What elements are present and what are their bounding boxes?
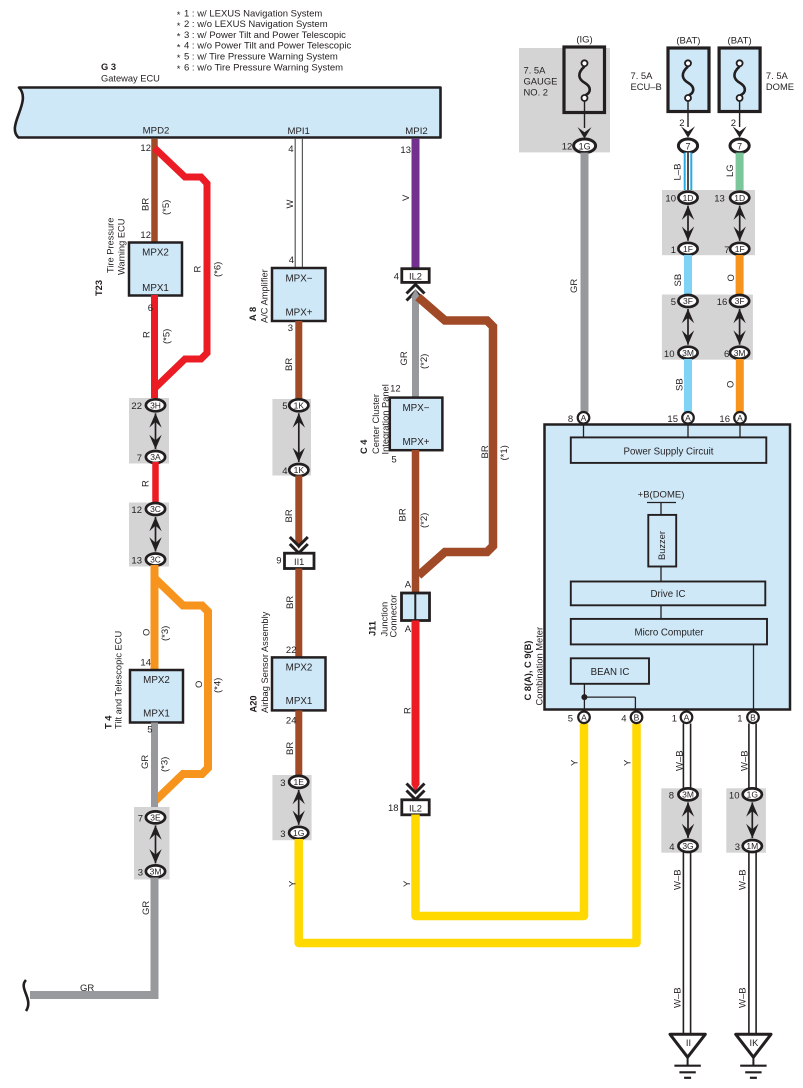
svg-text:4: 4 <box>288 144 293 155</box>
svg-text:(BAT): (BAT) <box>728 36 752 47</box>
svg-text:3M: 3M <box>734 348 746 358</box>
svg-text:7. 5A: 7. 5A <box>524 65 547 76</box>
svg-text:1: 1 <box>671 245 676 256</box>
svg-text:LG: LG <box>725 164 736 177</box>
svg-text:(*5): (*5) <box>162 329 173 344</box>
svg-text:GR: GR <box>399 351 410 365</box>
wire GR from connector 3M to harness break at left <box>24 878 155 1012</box>
connector 1G (12) under IG fuse <box>562 139 596 153</box>
svg-text:O: O <box>194 681 205 688</box>
svg-text:5: 5 <box>568 713 573 724</box>
svg-text:9: 9 <box>276 556 281 567</box>
svg-text:BR: BR <box>398 508 409 521</box>
Micro Computer block <box>571 619 767 711</box>
svg-text:1K: 1K <box>294 401 305 411</box>
svg-text:IL2: IL2 <box>409 272 422 282</box>
svg-text:3: 3 <box>288 323 293 334</box>
connector pair 3C/3C <box>129 503 169 567</box>
ECU A20 Airbag Sensor Assembly <box>249 611 326 713</box>
svg-text:BR: BR <box>480 445 491 458</box>
svg-text:1K: 1K <box>294 465 305 475</box>
svg-text:(*3): (*3) <box>160 626 171 641</box>
connector pair 1G/1M <box>726 788 766 853</box>
svg-text:5 : w/ Tire Pressure Warning S: 5 : w/ Tire Pressure Warning System <box>184 51 338 62</box>
svg-text:GR: GR <box>80 983 94 994</box>
BEAN IC block <box>571 658 649 711</box>
wire BR from II1 to A20 MPX2 pin 22 <box>285 569 299 659</box>
svg-text:O: O <box>142 629 153 636</box>
svg-text:(*4): (*4) <box>213 678 224 693</box>
+B(DOME) node and Buzzer block <box>638 490 685 582</box>
svg-text:L–B: L–B <box>673 164 684 181</box>
svg-text:1 : w/ LEXUS Navigation System: 1 : w/ LEXUS Navigation System <box>184 8 322 19</box>
svg-text:BEAN IC: BEAN IC <box>591 667 630 678</box>
svg-text:*: * <box>177 32 181 43</box>
svg-text:Y: Y <box>402 880 413 887</box>
svg-text:7: 7 <box>737 141 742 151</box>
junction connector J11 <box>368 593 430 638</box>
svg-text:1G: 1G <box>579 141 591 151</box>
svg-text:IK: IK <box>750 1038 760 1048</box>
wire O from connector 1F to connector 3F <box>726 255 740 296</box>
wire O from connector 3M to meter pin 16(A) <box>726 359 740 412</box>
svg-text:*: * <box>177 21 181 32</box>
wire LG from DOME fuse to connector 1D <box>725 153 740 192</box>
svg-text:1D: 1D <box>734 193 745 203</box>
svg-text:BR: BR <box>284 358 295 371</box>
svg-text:MPX2: MPX2 <box>286 663 313 674</box>
wire O from connector 3C to T4 MPX2 <box>140 565 171 671</box>
svg-text:MPX2: MPX2 <box>143 675 170 686</box>
svg-text:+B(DOME): +B(DOME) <box>638 490 685 501</box>
svg-text:Gateway ECU: Gateway ECU <box>101 74 160 84</box>
wire R (*6) bypass around T23 <box>155 148 224 388</box>
svg-text:7: 7 <box>724 245 729 256</box>
legend notes <box>177 8 352 74</box>
svg-text:A: A <box>685 413 691 423</box>
svg-text:7. 5A: 7. 5A <box>631 70 654 81</box>
svg-text:A20: A20 <box>249 695 259 712</box>
svg-text:1D: 1D <box>683 193 694 203</box>
wire W-B from connector 1M to ground IK <box>738 853 757 1035</box>
svg-text:W–B: W–B <box>738 987 749 1008</box>
svg-text:(*6): (*6) <box>213 262 224 277</box>
svg-text:15: 15 <box>667 414 678 425</box>
svg-text:NO. 2: NO. 2 <box>524 87 549 98</box>
svg-text:T 4: T 4 <box>104 715 114 729</box>
svg-text:24: 24 <box>286 716 297 727</box>
svg-text:A: A <box>405 580 412 591</box>
ECU G3 Gateway ECU <box>15 62 441 138</box>
svg-text:*: * <box>177 42 181 53</box>
svg-text:(*5): (*5) <box>161 200 172 215</box>
svg-text:A: A <box>684 713 690 723</box>
svg-text:7: 7 <box>138 814 143 825</box>
svg-text:*: * <box>177 10 181 21</box>
svg-text:Connector: Connector <box>389 595 399 638</box>
svg-text:BR: BR <box>141 198 152 211</box>
ECU C8(A) C9(B) Combination Meter <box>523 425 790 710</box>
ECU T4 Tilt and Telescopic ECU <box>104 631 184 729</box>
connector pair 3H/3A <box>129 398 169 464</box>
svg-text:10: 10 <box>665 194 676 205</box>
svg-text:7. 5A: 7. 5A <box>766 70 789 81</box>
junction connector II1 <box>276 537 314 569</box>
ground point II <box>670 1034 705 1078</box>
ECU T23 Tire Pressure Warning ECU <box>94 218 182 296</box>
svg-text:R: R <box>141 480 152 487</box>
connector pair 3E/3M <box>134 807 170 880</box>
svg-text:Airbag Sensor Assembly: Airbag Sensor Assembly <box>260 611 270 713</box>
svg-text:3M: 3M <box>682 790 694 800</box>
svg-text:IL2: IL2 <box>409 804 422 814</box>
svg-text:W–B: W–B <box>675 750 686 771</box>
svg-text:R: R <box>193 266 204 273</box>
svg-text:5: 5 <box>282 401 287 412</box>
svg-text:C 4: C 4 <box>359 439 369 454</box>
svg-text:MPI2: MPI2 <box>405 126 427 137</box>
svg-text:MPX+: MPX+ <box>286 308 313 319</box>
svg-text:3C: 3C <box>150 504 161 514</box>
svg-text:W–B: W–B <box>673 869 684 890</box>
svg-text:BR: BR <box>285 742 296 755</box>
svg-text:10: 10 <box>729 790 740 801</box>
svg-text:5: 5 <box>391 454 396 465</box>
svg-text:A 8: A 8 <box>248 307 258 321</box>
svg-text:13: 13 <box>131 556 142 567</box>
svg-text:(IG): (IG) <box>576 35 592 46</box>
svg-text:*: * <box>177 64 181 75</box>
svg-text:1F: 1F <box>683 244 693 254</box>
wire GR from connector 1G to combination meter pin 8(A) <box>569 153 585 412</box>
svg-text:MPI1: MPI1 <box>287 126 309 137</box>
svg-text:Warning ECU: Warning ECU <box>117 219 127 276</box>
svg-text:B: B <box>750 713 756 723</box>
svg-text:16: 16 <box>717 297 728 308</box>
svg-text:Micro Computer: Micro Computer <box>635 628 705 639</box>
connector pairs 1D/1F <box>662 190 755 256</box>
svg-text:MPX1: MPX1 <box>142 283 169 294</box>
svg-text:*: * <box>177 53 181 64</box>
svg-text:MPD2: MPD2 <box>143 126 170 137</box>
svg-text:T23: T23 <box>94 280 104 296</box>
svg-text:A: A <box>405 624 412 635</box>
svg-text:12: 12 <box>562 142 573 153</box>
svg-text:Drive IC: Drive IC <box>651 589 686 600</box>
wire W-B from connector 3G to ground II <box>673 853 691 1035</box>
wire BR from gateway MPD2 pin 12 to T23 MPX2 <box>140 139 172 243</box>
svg-text:1G: 1G <box>293 828 304 838</box>
svg-text:MPX−: MPX− <box>403 403 430 414</box>
svg-text:DOME: DOME <box>766 81 794 92</box>
wire R from connector 3A to connector 3C <box>141 462 156 504</box>
svg-text:16: 16 <box>719 414 730 425</box>
svg-text:14: 14 <box>140 658 151 669</box>
junction connector IL2 (pin 4) <box>394 269 429 301</box>
svg-text:C 8(A), C 9(B): C 8(A), C 9(B) <box>523 641 533 701</box>
wire BR from connector 1K to junction II1 <box>284 476 303 550</box>
svg-text:3E: 3E <box>150 813 161 823</box>
svg-text:4: 4 <box>282 466 287 477</box>
wire BR (*1) bypass from IL2 to junction connector J11 <box>418 297 510 576</box>
svg-text:3F: 3F <box>735 296 745 306</box>
svg-text:MPX1: MPX1 <box>286 696 313 707</box>
svg-text:SB: SB <box>673 274 684 287</box>
wire SB from connector 1F to connector 3F <box>673 255 688 296</box>
svg-text:4: 4 <box>394 271 399 282</box>
svg-text:(BAT): (BAT) <box>676 36 700 47</box>
svg-text:(*2): (*2) <box>419 354 430 369</box>
svg-text:4: 4 <box>669 842 674 853</box>
svg-text:2 : w/o LEXUS Navigation Syste: 2 : w/o LEXUS Navigation System <box>184 19 328 30</box>
wire V from gateway MPI2 pin 13 to junction IL2 <box>400 139 415 269</box>
svg-text:13: 13 <box>714 194 725 205</box>
fuse 7.5A GAUGE NO.2 (IG) <box>519 35 610 153</box>
svg-text:4: 4 <box>289 255 294 266</box>
svg-text:1G: 1G <box>747 790 758 800</box>
svg-text:W: W <box>285 200 296 209</box>
svg-text:(*2): (*2) <box>419 513 430 528</box>
svg-text:4 : w/o Power Tilt and Power T: 4 : w/o Power Tilt and Power Telescopic <box>184 41 351 52</box>
ECU A8 A/C Amplifier <box>248 268 326 323</box>
svg-text:22: 22 <box>286 645 297 656</box>
svg-text:6: 6 <box>148 303 153 314</box>
svg-text:3A: 3A <box>150 452 161 462</box>
svg-text:(*3): (*3) <box>160 757 171 772</box>
svg-text:G 3: G 3 <box>101 62 116 72</box>
svg-text:3F: 3F <box>683 296 693 306</box>
svg-text:Integration Panel: Integration Panel <box>380 384 390 454</box>
svg-text:A: A <box>581 413 587 423</box>
svg-text:3: 3 <box>735 842 740 853</box>
svg-text:1M: 1M <box>746 841 758 851</box>
svg-text:O: O <box>726 274 737 281</box>
svg-text:7: 7 <box>137 453 142 464</box>
svg-text:II: II <box>686 1038 691 1048</box>
svg-text:Y: Y <box>570 759 581 766</box>
svg-text:3: 3 <box>280 829 285 840</box>
svg-text:MPX2: MPX2 <box>142 248 169 259</box>
connector pair 1E/1G <box>272 775 311 840</box>
ground point IK <box>736 1034 771 1078</box>
svg-text:3C: 3C <box>150 555 161 565</box>
svg-text:R: R <box>403 707 414 714</box>
svg-text:6: 6 <box>724 349 729 360</box>
svg-text:II1: II1 <box>294 557 304 567</box>
wire GR from IL2 to C4 MPX- pin 12 <box>390 290 430 399</box>
svg-text:3M: 3M <box>682 348 694 358</box>
svg-text:1F: 1F <box>735 244 745 254</box>
svg-text:3 : w/ Power Tilt and Power Te: 3 : w/ Power Tilt and Power Telescopic <box>184 30 346 41</box>
svg-text:Y: Y <box>288 880 299 887</box>
svg-text:4: 4 <box>621 713 626 724</box>
wire R from T23 MPX1 pin 6 to connector 3H <box>142 295 173 400</box>
svg-text:5: 5 <box>671 297 676 308</box>
svg-text:12: 12 <box>140 230 151 241</box>
connector pair 1K/1K <box>272 399 311 477</box>
svg-text:Y: Y <box>623 759 634 766</box>
svg-text:Tilt and Telescopic ECU: Tilt and Telescopic ECU <box>114 631 124 729</box>
Drive IC block <box>571 582 766 619</box>
svg-text:3: 3 <box>280 778 285 789</box>
svg-text:8: 8 <box>669 790 674 801</box>
svg-text:1: 1 <box>672 713 677 724</box>
wire BR from C4 MPX+ pin 5 to junction connector J11 pin A <box>391 450 430 594</box>
svg-text:A/C Amplifier: A/C Amplifier <box>260 269 270 323</box>
wire W-B from meter pin 1(B) to connector 1G <box>740 724 757 789</box>
wire GR from T4 MPX1 pin 5 to connector 3E <box>140 723 171 813</box>
svg-text:12: 12 <box>131 505 142 516</box>
wire L-B from ECU-B fuse to connector 1D <box>673 153 689 192</box>
svg-text:Power Supply Circuit: Power Supply Circuit <box>624 446 714 457</box>
svg-text:(*1): (*1) <box>499 445 510 460</box>
svg-text:W–B: W–B <box>740 750 751 771</box>
svg-text:GR: GR <box>140 755 151 769</box>
svg-text:A: A <box>581 713 587 723</box>
wire Y from IL2 to combination meter pin 5(A) <box>402 724 584 917</box>
svg-text:1: 1 <box>737 713 742 724</box>
svg-text:Buzzer: Buzzer <box>657 531 667 560</box>
svg-text:13: 13 <box>400 145 411 156</box>
svg-text:W–B: W–B <box>738 869 749 890</box>
svg-text:ECU–B: ECU–B <box>631 81 662 92</box>
svg-text:GR: GR <box>141 901 152 915</box>
fuse 7.5A DOME (BAT) <box>719 36 794 153</box>
svg-text:O: O <box>726 381 737 388</box>
svg-text:3: 3 <box>138 868 143 879</box>
wire BR from A8 MPX+ pin 3 to connector 1K <box>284 321 299 400</box>
svg-text:3H: 3H <box>150 401 161 411</box>
svg-text:BR: BR <box>284 509 295 522</box>
svg-text:5: 5 <box>147 725 152 736</box>
wire O (*4) bypass around T4 <box>155 578 224 801</box>
svg-text:R: R <box>142 331 153 338</box>
svg-text:W–B: W–B <box>673 987 684 1008</box>
svg-text:3G: 3G <box>682 841 693 851</box>
svg-text:12: 12 <box>140 143 151 154</box>
meter pins 5(A) 4(B) 1(A) 1(B) <box>568 712 759 725</box>
junction connector IL2 (pin 18) <box>388 784 429 815</box>
svg-text:22: 22 <box>131 401 142 412</box>
svg-text:J11: J11 <box>368 621 378 636</box>
svg-text:6 : w/o Tire Pressure Warning: 6 : w/o Tire Pressure Warning System <box>184 62 343 73</box>
wire R from J11 pin A to junction IL2 (pin 18) <box>403 621 420 792</box>
svg-text:12: 12 <box>390 384 401 395</box>
svg-text:8: 8 <box>568 414 573 425</box>
svg-text:7: 7 <box>685 141 690 151</box>
Power Supply Circuit block <box>571 437 767 463</box>
wire Y from connector 1G to combination meter pin 4(B) <box>288 724 637 944</box>
svg-text:10: 10 <box>664 349 675 360</box>
ECU C4 Center Cluster Integration Panel <box>359 384 442 454</box>
svg-text:MPX+: MPX+ <box>403 437 430 448</box>
svg-text:B: B <box>634 713 640 723</box>
svg-text:BR: BR <box>285 596 296 609</box>
svg-text:SB: SB <box>675 378 686 391</box>
connector pair 3M/3G <box>661 788 702 853</box>
svg-text:V: V <box>401 194 412 201</box>
svg-text:Combination Meter: Combination Meter <box>535 627 545 706</box>
svg-text:GR: GR <box>569 279 580 293</box>
svg-text:MPX−: MPX− <box>286 274 313 285</box>
svg-text:1E: 1E <box>293 777 304 787</box>
svg-text:3M: 3M <box>150 867 162 877</box>
svg-text:18: 18 <box>388 803 399 814</box>
svg-text:A: A <box>737 413 743 423</box>
wire SB from connector 3M to meter pin 15(A) <box>675 359 689 412</box>
meter pins 8(A) 15(A) 16(A) <box>568 412 746 438</box>
connector pairs 3F/3M <box>662 295 753 361</box>
svg-text:MPX1: MPX1 <box>143 709 170 720</box>
svg-text:GAUGE: GAUGE <box>524 76 558 87</box>
wire W-B from meter pin 1(A) to connector 3M <box>675 724 691 789</box>
fuse 7.5A ECU-B (BAT) <box>631 36 710 153</box>
wire W from gateway MPI1 pin 4 to A8 MPX- <box>285 139 302 268</box>
svg-text:Tire Pressure: Tire Pressure <box>106 218 116 273</box>
wire BR from A20 MPX1 pin 24 to connector 1E <box>285 710 299 776</box>
